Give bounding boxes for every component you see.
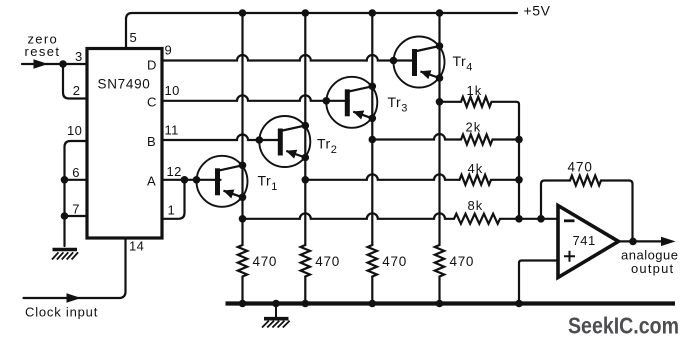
svg-text:470: 470 (253, 254, 278, 269)
junction Tr3 base (323, 97, 331, 105)
wire pin10-left down to pins 6,7 and ground (65, 141, 88, 246)
junction Tr1 emitter (239, 194, 247, 202)
wire non-inverting input to ground rail (519, 261, 558, 304)
ground (bottom rail) (262, 304, 290, 328)
wire + resistor R9 470 feedback (op-amp output to inverting input) (541, 176, 633, 242)
wire pin 1 to pin 12 junction (162, 180, 185, 219)
svg-text:SN7490: SN7490 (98, 77, 151, 92)
wire ground rail (0V) (226, 301, 676, 305)
wire + resistor R1 1k row (Tr4 emitter to summing node) (440, 97, 520, 140)
junction ground symbol tie (272, 300, 280, 308)
wire pin 6 stub (65, 179, 88, 181)
wire column 1 to ground rail (241, 277, 243, 304)
IC U1 SN7490 body (87, 49, 162, 239)
op-amp U2 741 (558, 206, 619, 278)
junction Tr4 emitter (436, 74, 444, 82)
wire +5V supply rail (126, 13, 517, 49)
wire collector/emitter column for Tr3 (col C) (371, 13, 373, 245)
wire zero reset input (pin 3) (22, 63, 87, 65)
svg-text:reset: reset (25, 44, 61, 59)
resistor R5 470 (emitter load) (238, 245, 247, 277)
svg-text:output: output (631, 261, 674, 276)
junction 4k to summing node (515, 176, 523, 184)
svg-text:470: 470 (450, 254, 475, 269)
junction pin1/pin12 tie (181, 176, 189, 184)
resistor R7 470 (emitter load) (368, 245, 377, 277)
svg-text:9: 9 (165, 43, 173, 58)
junction pin6 tie (61, 176, 69, 184)
svg-text:Clock input: Clock input (25, 305, 98, 320)
junction column 3 to ground rail (369, 300, 377, 308)
svg-text:14: 14 (129, 239, 144, 254)
junction column 3 to +5V rail (369, 9, 377, 17)
junction Tr3 emitter (369, 115, 377, 123)
transistor Tr4 (394, 37, 445, 88)
resistor R8 470 (emitter load) (435, 245, 444, 277)
wire summing node vertical (518, 140, 520, 219)
junction Tr2 emitter (302, 154, 310, 162)
svg-text:2k: 2k (466, 119, 482, 134)
arrowhead analogue output (661, 237, 676, 246)
transistor Tr2 (259, 116, 310, 167)
junction Tr2 base (255, 136, 263, 144)
junction pin7 tie (61, 212, 69, 220)
svg-text:1k: 1k (467, 83, 483, 98)
wire pin 7 stub (65, 215, 88, 217)
svg-text:C: C (147, 95, 157, 110)
svg-text:470: 470 (382, 254, 407, 269)
svg-text:8k: 8k (468, 198, 484, 213)
junction Tr4 base (390, 57, 398, 65)
transistor Tr1 (197, 156, 248, 207)
svg-text:SeekIC.com: SeekIC.com (568, 313, 679, 339)
junction column 4 to ground rail (436, 300, 444, 308)
junction Tr4 collector (436, 42, 444, 50)
svg-text:7: 7 (72, 202, 80, 217)
svg-text:4k: 4k (468, 161, 484, 176)
junction zero-reset node (59, 60, 67, 68)
wire + resistor R2 2k row (Tr3 emitter to summing node) (372, 134, 461, 139)
wire op-amp output (617, 240, 664, 242)
wire output C row (pin 10 to Tr3 base) (162, 95, 349, 100)
svg-text:10: 10 (165, 83, 180, 98)
junction 2k to summing node (515, 136, 523, 144)
junction 8k row to Tr1 emitter column (239, 215, 247, 223)
junction Tr3 collector (369, 83, 377, 91)
resistor R6 470 (emitter load) (301, 245, 310, 277)
junction 4k row to Tr2 emitter column (302, 176, 310, 184)
junction output to feedback (629, 238, 637, 246)
junction 2k row to Tr3 emitter column (369, 136, 377, 144)
wire + resistor R4 8k row (Tr1 emitter to op-amp inverting input) (243, 213, 455, 219)
wire collector/emitter column for Tr1 (col A) (241, 13, 243, 245)
svg-text:470: 470 (315, 254, 340, 269)
svg-text:12: 12 (167, 164, 182, 179)
junction Tr2 collector (302, 122, 310, 130)
wire output A row (pin 12 to Tr1 base) (162, 179, 221, 181)
junction Tr1 collector (239, 162, 247, 170)
junction 8k to summing node (515, 215, 523, 223)
svg-text:+5V: +5V (524, 2, 551, 18)
wire pin3 to pin2 link (63, 64, 87, 99)
svg-text:1: 1 (168, 203, 176, 218)
junction column 1 to ground rail (239, 300, 247, 308)
wire output B row (pin 11 to Tr2 base) (162, 135, 281, 141)
svg-text:741: 741 (573, 233, 596, 248)
ground (left, IC reset pins) (52, 250, 78, 260)
arrowhead clock input (67, 293, 82, 302)
junction column 2 to +5V rail (302, 9, 310, 17)
transistor Tr3 (326, 77, 377, 128)
junction column 4 to +5V rail (436, 9, 444, 17)
wire collector/emitter column for Tr2 (col B) (304, 13, 306, 245)
wire + resistor R3 4k row (Tr2 emitter to summing node) (305, 174, 459, 180)
svg-text:11: 11 (165, 122, 179, 137)
junction column 2 to ground rail (302, 300, 310, 308)
wire column 3 to ground rail (371, 277, 373, 304)
svg-text:470: 470 (568, 159, 593, 174)
arrowhead zero reset (34, 59, 49, 68)
junction feedback to inverting input (537, 215, 545, 223)
svg-text:D: D (147, 58, 157, 73)
junction +input tie to ground rail (515, 300, 523, 308)
wire column 2 to ground rail (304, 277, 306, 304)
junction 1k row to Tr4 emitter column (436, 98, 444, 106)
svg-text:5: 5 (130, 30, 138, 45)
svg-text:6: 6 (72, 165, 80, 180)
svg-text:A: A (147, 173, 156, 188)
svg-text:10: 10 (67, 123, 82, 138)
wire Clock input to pin 14 (24, 238, 126, 298)
svg-text:B: B (147, 134, 156, 149)
wire output D row (pin 9 to Tr4 base) (162, 55, 415, 61)
svg-text:3: 3 (75, 49, 83, 64)
junction column 1 to +5V rail (239, 9, 247, 17)
wire collector/emitter column for Tr4 (col D) (438, 13, 440, 245)
svg-text:2: 2 (73, 83, 81, 98)
wire column 4 to ground rail (438, 277, 440, 304)
junction Tr1 base (193, 176, 201, 184)
